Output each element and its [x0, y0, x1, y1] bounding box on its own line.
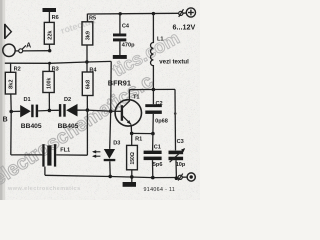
svg-text:C2: C2 — [156, 101, 163, 107]
svg-text:0p68: 0p68 — [155, 119, 168, 125]
svg-text:6k8: 6k8 — [86, 80, 92, 89]
svg-text:914064 - 11: 914064 - 11 — [144, 187, 176, 193]
svg-text:D1: D1 — [24, 97, 31, 103]
svg-text:D2: D2 — [64, 97, 71, 103]
svg-text:BFR91: BFR91 — [108, 79, 131, 88]
svg-text:BB405: BB405 — [21, 123, 42, 130]
svg-text:R6: R6 — [52, 15, 59, 21]
svg-text:L1: L1 — [157, 37, 164, 43]
svg-text:100k: 100k — [47, 78, 53, 89]
svg-text:5p6: 5p6 — [153, 162, 163, 168]
svg-text:D3: D3 — [113, 141, 120, 147]
svg-text:B: B — [3, 116, 8, 123]
svg-text:www.electroschematics: www.electroschematics — [7, 186, 81, 192]
svg-text:R3: R3 — [52, 66, 59, 72]
svg-text:R4: R4 — [89, 67, 97, 73]
svg-text:R5: R5 — [89, 16, 96, 22]
svg-text:150Ω: 150Ω — [130, 152, 136, 164]
svg-text:R2: R2 — [14, 66, 21, 72]
svg-text:R1: R1 — [135, 136, 142, 142]
svg-text:T1: T1 — [133, 94, 140, 100]
svg-text:C1: C1 — [154, 145, 161, 151]
svg-text:BB405: BB405 — [58, 123, 79, 130]
svg-text:8k2: 8k2 — [9, 80, 15, 89]
svg-text:C3: C3 — [177, 139, 184, 145]
svg-text:FL1: FL1 — [60, 147, 70, 153]
svg-text:470p: 470p — [122, 42, 135, 48]
svg-text:10p: 10p — [176, 162, 186, 168]
svg-text:C4: C4 — [122, 24, 130, 30]
svg-text:vezi textul: vezi textul — [159, 58, 189, 65]
svg-text:A: A — [26, 42, 31, 49]
svg-text:6...12V: 6...12V — [173, 23, 196, 32]
svg-text:22k: 22k — [47, 30, 53, 40]
svg-text:3k9: 3k9 — [85, 31, 91, 40]
